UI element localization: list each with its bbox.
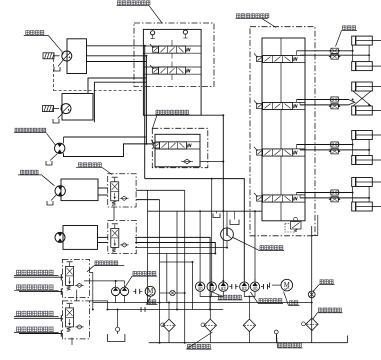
svg-text:M: M	[147, 287, 154, 295]
tank right lip	[347, 336, 349, 343]
feed line B group4	[300, 195, 369, 198]
block M5	[63, 226, 98, 250]
cylinder top 3	[352, 131, 381, 140]
balance valves group2	[329, 97, 341, 109]
wire M2 A	[88, 78, 146, 93]
cylinder bottom 1	[352, 62, 381, 71]
suction filter F2	[201, 319, 217, 343]
feed chevron group2	[349, 100, 355, 105]
main motor M	[281, 279, 293, 291]
wire block1 bottom	[201, 115, 223, 211]
pump riser P2	[211, 179, 213, 281]
risers 3	[353, 140, 370, 156]
pump riser P1	[199, 211, 201, 280]
directional valve V2	[150, 65, 190, 74]
manual valve group G3 enclosure	[62, 259, 89, 297]
balance valves group4	[329, 190, 341, 202]
wire box3 out	[200, 161, 224, 163]
wire M1 A	[87, 45, 147, 47]
check valve G4	[75, 325, 84, 329]
check valve G3	[75, 283, 84, 287]
balance valves group1	[329, 48, 341, 59]
single valve enclosure	[152, 128, 208, 167]
wire G1 outA	[136, 189, 185, 191]
drill supply wire 接锚杆钻机进油	[14, 270, 63, 280]
inner block dual valve	[143, 29, 201, 115]
wire G4 to suction	[90, 301, 108, 310]
suction coupling marks	[141, 307, 145, 312]
cylinder top 4	[352, 178, 381, 187]
label motor right 电机	[284, 292, 300, 306]
strainer drop	[116, 310, 120, 335]
wire M3 bottom	[64, 144, 153, 157]
case drain dashed line	[54, 59, 143, 91]
gear pump P3	[219, 279, 228, 291]
valve Q2 band lines	[262, 102, 305, 109]
gauge port a	[151, 31, 155, 39]
valve V1 stubs	[171, 40, 173, 59]
wire G2 outB	[135, 243, 215, 254]
pressure gauge	[221, 228, 234, 241]
motor M5	[55, 232, 65, 242]
left motor M	[145, 286, 155, 296]
label single multiway valve 单联多路换向阀	[153, 110, 191, 128]
feed line A group2	[297, 100, 349, 103]
balance valves group3	[329, 142, 341, 154]
shaft coupling of M1	[43, 53, 60, 59]
tank under M3	[46, 154, 57, 165]
left pump LP2	[120, 285, 128, 296]
suction manifold 1	[200, 291, 223, 319]
risers 4	[353, 187, 370, 203]
feed line B group2	[300, 102, 349, 105]
return filter F4	[302, 318, 319, 330]
directional valve V1	[150, 44, 190, 53]
thermometer	[274, 330, 278, 343]
scraper motor M3	[55, 143, 65, 153]
svg-text:63: 63	[221, 286, 226, 291]
label return filter 回油过滤器	[313, 308, 343, 320]
tank top line	[149, 342, 348, 344]
wire G2 outA	[135, 237, 210, 309]
label manual valve G3 手动换向阀	[87, 261, 124, 272]
manual valve G2	[111, 224, 119, 252]
feed line B group3	[300, 149, 369, 150]
label travel motor 行走马达	[24, 31, 63, 53]
center drop d	[166, 254, 168, 303]
cylinder top 1	[352, 36, 381, 45]
manual valve group G4 enclosure	[62, 301, 89, 339]
suction manifold 2	[244, 291, 255, 319]
tank under M1	[54, 67, 60, 71]
valve V2 stubs	[171, 62, 173, 81]
check valve G1	[120, 196, 129, 200]
label manual valve G1 手动换向阀	[76, 163, 112, 175]
wire M5 A	[98, 236, 108, 238]
svg-text:M: M	[284, 281, 291, 289]
loading motor M4	[55, 186, 65, 196]
pump coupling 1	[229, 284, 238, 289]
cooler	[308, 291, 315, 298]
wire drop 184	[184, 190, 186, 342]
manual valve G4	[66, 303, 74, 331]
suction filter F1	[161, 303, 175, 343]
wire M2 B	[94, 82, 146, 122]
valve V2 band lines	[143, 67, 201, 74]
wire G1-G2 link	[113, 207, 115, 220]
svg-text:40: 40	[209, 286, 214, 291]
pump riser P5	[254, 211, 256, 280]
staircase line b	[148, 253, 216, 255]
small tank	[108, 334, 125, 342]
gauge port b	[183, 30, 187, 38]
dual valve enclosure	[134, 23, 214, 86]
gearbox block M1	[67, 39, 87, 74]
shaft coupling of M2	[43, 106, 60, 112]
wire drop 147	[147, 190, 149, 302]
label scraper motor 刮板运输机马达	[14, 128, 56, 145]
gearbox block M2	[62, 94, 93, 121]
gauge stub down	[226, 241, 228, 248]
feed line A group1	[297, 51, 353, 56]
valve V1 band lines	[143, 46, 201, 53]
cylinder top 2	[352, 82, 381, 91]
feed line A group4	[297, 193, 353, 195]
relief valve	[285, 217, 301, 232]
left coupling	[133, 289, 142, 294]
gear pump P4	[240, 279, 249, 291]
label pressure gauge 六点压力表	[233, 238, 284, 251]
valve Q1 band lines	[262, 55, 305, 62]
label left pump 双联齿轮泵	[125, 271, 157, 287]
return line right	[312, 215, 318, 343]
suction filter F3	[243, 319, 255, 343]
inner block quad valve	[262, 38, 305, 221]
inner block single valve	[155, 134, 200, 167]
return manifold	[93, 302, 312, 304]
risers 1	[353, 45, 370, 62]
suction line	[107, 309, 223, 311]
label dual multiway valve 双联多路换向阀	[117, 1, 163, 23]
cylinder bottom 2	[352, 106, 381, 115]
label motor left 电机	[147, 297, 158, 305]
svg-text:40: 40	[198, 286, 203, 291]
staircase line a	[135, 247, 227, 249]
drill return wire 接锚杆钻机回油	[14, 285, 62, 295]
gear pump P2	[207, 279, 216, 291]
tank under M4	[47, 194, 57, 205]
center drop b	[176, 211, 178, 309]
left pump suction	[116, 296, 125, 303]
svg-text:40: 40	[253, 286, 258, 291]
wire M5 B	[98, 242, 108, 244]
left pump feed line	[84, 281, 125, 285]
wire M4 B	[98, 194, 108, 196]
check valve return	[160, 290, 185, 295]
directional valve Q3	[254, 147, 297, 156]
crossed link 2	[353, 91, 371, 106]
directional valve Q2	[254, 100, 297, 109]
G4 bottom drop	[71, 338, 73, 345]
gauge manifold tanks	[213, 211, 239, 224]
manual valve G3	[66, 262, 74, 290]
wire M1 B	[87, 55, 147, 57]
wire G3 return	[90, 273, 93, 310]
gallery line box2	[280, 38, 282, 221]
label level temp gauge 液位液温计	[277, 334, 303, 348]
quad valve enclosure	[250, 27, 315, 236]
check valve G2	[120, 243, 129, 247]
drain of M2	[53, 113, 63, 123]
label quad multiway valve 四联多路换向阀	[236, 14, 277, 28]
manual valve group G1 enclosure	[108, 174, 136, 207]
gauge stub up	[226, 211, 228, 228]
gear pump P1	[195, 279, 204, 291]
travel motor M2	[61, 104, 72, 114]
motor shaft	[270, 283, 282, 288]
gearbox block M4	[61, 179, 98, 201]
label triple pump 三联齿轮泵	[212, 292, 243, 300]
cylinder bottom 4	[352, 202, 381, 211]
pump coupling 2	[261, 284, 270, 289]
wire M1 drain	[87, 61, 147, 63]
label dual pump 双联齿轮泵	[251, 292, 284, 303]
label suction filter 吸油过滤器	[187, 332, 213, 349]
travel motor M1	[61, 51, 72, 61]
manual valve G1	[111, 177, 119, 205]
valve Q4 band lines	[262, 195, 305, 202]
drain of M1	[58, 60, 64, 67]
vertical feed pair	[145, 46, 147, 179]
label balance valve 平衡阀	[336, 26, 358, 47]
pump riser P3	[222, 211, 224, 280]
cylinder bottom 3	[352, 156, 381, 165]
svg-text:63: 63	[242, 286, 247, 291]
feed line B group1	[300, 54, 369, 56]
directional valve Q1	[254, 53, 297, 62]
valve V3 band lines	[155, 142, 200, 149]
label cooler 冷却器	[313, 280, 335, 292]
wire drop 160	[159, 200, 161, 343]
drill return wire2 接锚杆钻机回油	[14, 327, 62, 337]
staircase line c	[160, 261, 193, 263]
label loading motor 装载马达	[18, 170, 55, 186]
wire M4 A	[98, 187, 108, 189]
drill supply wire2 接锚杆钻机进油	[14, 311, 63, 321]
main manifold line	[148, 210, 263, 212]
wire drop 192	[192, 262, 194, 310]
gear pump P5	[250, 279, 259, 291]
wire M3 top	[64, 137, 145, 143]
G3 G4 link	[76, 290, 78, 301]
feed line A group3	[297, 145, 353, 149]
manual valve group G2 enclosure	[108, 220, 136, 253]
directional valve V3	[151, 140, 191, 149]
valve Q3 band lines	[262, 149, 305, 156]
left pump LP1	[111, 285, 119, 296]
wire box3 to pump4	[145, 179, 245, 281]
directional valve Q4	[254, 193, 297, 202]
wire G1 outB	[136, 199, 159, 201]
check valve box3	[181, 159, 193, 164]
